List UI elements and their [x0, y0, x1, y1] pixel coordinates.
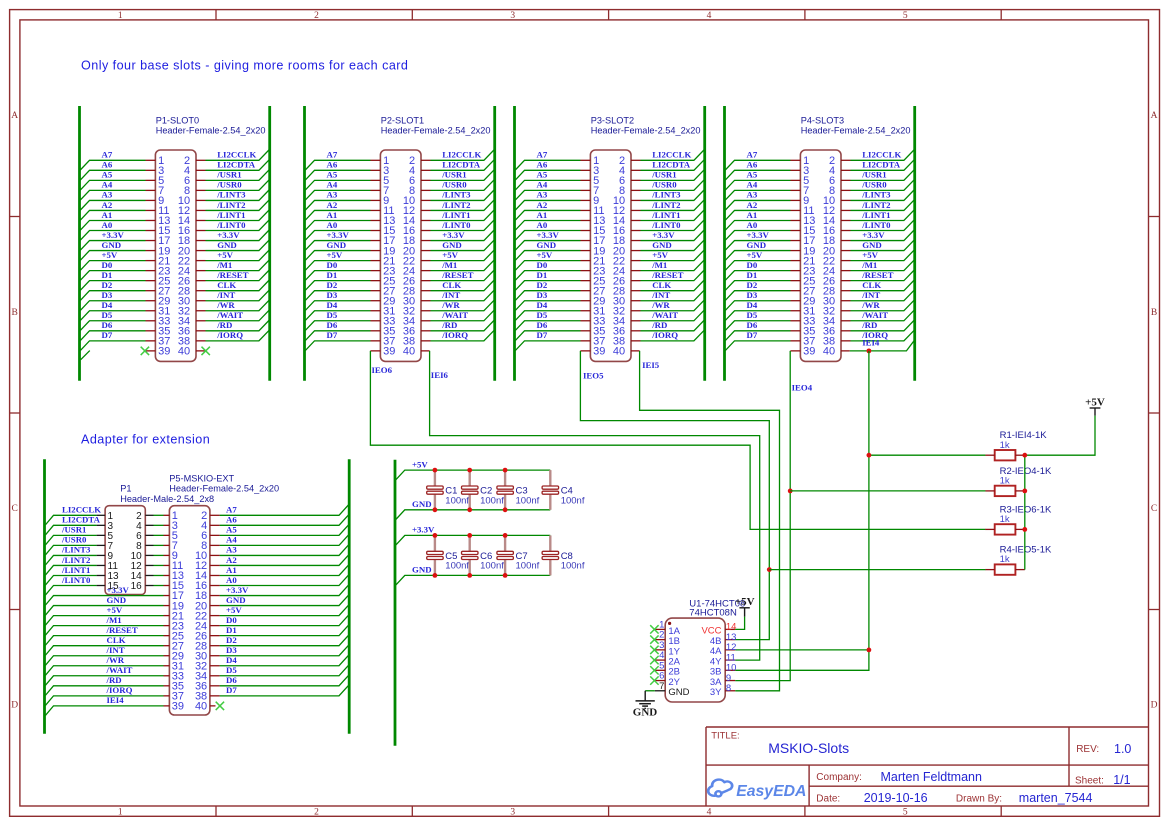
- adapter wire right row 8 net A0: [220, 575, 349, 585]
- P3-SLOT2 wire left row 18 net D6: [515, 331, 580, 341]
- P2-SLOT1 wire right row 16 net /WR: [431, 300, 494, 310]
- adapter wire right row 15 net D3: [220, 645, 349, 655]
- svg-text:D6: D6: [102, 320, 113, 330]
- P2-SLOT1 wire left row 4 net A4: [305, 190, 370, 200]
- svg-text:Date:: Date:: [816, 793, 840, 804]
- P5 pin 28 stub: [210, 645, 220, 647]
- P1 pin 7 stub right: [145, 544, 153, 546]
- svg-text:D1: D1: [327, 270, 338, 280]
- P4-SLOT3 pin 10 stub: [841, 199, 851, 201]
- P1-SLOT0 wire right row 6 net /LINT2: [206, 200, 269, 210]
- P1-SLOT0 wire left row 14 net D2: [80, 291, 145, 301]
- R1 left lead: [985, 454, 995, 456]
- svg-text:D3: D3: [537, 290, 548, 300]
- svg-text:D5: D5: [226, 665, 237, 675]
- P1-SLOT0 wire left row 17 net D5: [80, 321, 145, 331]
- svg-text:/M1: /M1: [441, 260, 457, 270]
- adapter wire left row 5 net /LINT3: [45, 555, 96, 565]
- U1 pin 2 stub: [655, 639, 665, 641]
- adapter wire right row 19 net D7: [220, 686, 349, 696]
- svg-text:/LINT3: /LINT3: [61, 545, 91, 555]
- junction C5 top: [433, 533, 438, 538]
- P3-SLOT2 pin 25 stub: [581, 280, 591, 282]
- P5 pin 37 stub: [164, 695, 170, 697]
- P1-SLOT0 wire right row 16 net /WR: [206, 300, 269, 310]
- svg-text:D5: D5: [747, 310, 758, 320]
- svg-text:LI2CDTA: LI2CDTA: [217, 160, 256, 170]
- P5 pin 25 stub: [164, 635, 170, 637]
- P2-SLOT1 wire right row 12 net /M1: [431, 260, 494, 270]
- svg-text:/USR1: /USR1: [441, 170, 466, 180]
- wire P1 to P5 row 8: [154, 585, 164, 587]
- P1-SLOT0 wire right row 3 net /USR1: [206, 170, 269, 180]
- wire U1 VCC to +5V flag: [735, 617, 744, 630]
- adapter wire left row 15 net /INT: [45, 656, 163, 666]
- U1 pin 3 stub: [655, 649, 665, 651]
- P2-SLOT1 pin 23 stub: [371, 270, 381, 272]
- adapter wire left row 7 net /LINT1: [45, 575, 96, 585]
- P4-SLOT3 pin 22 stub: [841, 260, 851, 262]
- svg-text:100nf: 100nf: [480, 495, 504, 506]
- wire P1 to P5 row 3: [154, 534, 164, 536]
- R2 left lead: [985, 490, 995, 492]
- P3-SLOT2 wire right row 12 net /M1: [641, 260, 704, 270]
- P1 pin 15 stub: [97, 585, 106, 587]
- connector P2-SLOT1 rectangle: [380, 150, 421, 361]
- P1-SLOT0 pin 7 stub: [146, 189, 156, 191]
- resistor R4: [995, 564, 1016, 574]
- junction R1 rail: [1022, 453, 1027, 458]
- P1-SLOT0 pin 33 stub: [146, 320, 156, 322]
- svg-text:1k: 1k: [1000, 440, 1010, 451]
- P1-SLOT0 pin 3 stub: [146, 169, 156, 171]
- P2-SLOT1 wire left row 14 net D2: [305, 291, 370, 301]
- svg-text:A0: A0: [102, 220, 113, 230]
- svg-text:/LINT0: /LINT0: [216, 220, 246, 230]
- P2-SLOT1 wire left row 1 net A7: [305, 160, 370, 170]
- P3-SLOT2 pin 36 stub: [631, 330, 641, 332]
- U1 pin 4 stub: [655, 659, 665, 661]
- IC U1 74HCT08N rectangle: [665, 618, 725, 702]
- svg-text:D0: D0: [102, 260, 113, 270]
- P4-SLOT3 wire left row 19 net D7: [725, 341, 790, 351]
- svg-text:/USR1: /USR1: [651, 170, 676, 180]
- P3-SLOT2 wire right row 2 net LI2CDTA: [641, 160, 704, 170]
- P1-SLOT0 pin 23 stub: [146, 270, 156, 272]
- P3-SLOT2 wire left row 9 net +3.3V: [515, 241, 580, 251]
- svg-text:+3.3V: +3.3V: [537, 230, 560, 240]
- P2-SLOT1 pin 16 stub: [421, 230, 431, 232]
- svg-text:A2: A2: [537, 200, 548, 210]
- P3-SLOT2 wire left row 12 net D0: [515, 271, 580, 281]
- adapter wire right row 14 net D2: [220, 635, 349, 645]
- P1-SLOT0 wire right row 8 net /LINT0: [206, 220, 269, 230]
- P2-SLOT1 wire left row 13 net D1: [305, 281, 370, 291]
- svg-text:4: 4: [707, 808, 712, 818]
- svg-text:D3: D3: [747, 290, 758, 300]
- power flag +5V (right): [1094, 408, 1096, 416]
- P2-SLOT1 wire right row 13 net /RESET: [431, 270, 494, 280]
- P1-SLOT0 wire left row 16 net D4: [80, 311, 145, 321]
- P2-SLOT1 wire left row 16 net D4: [305, 311, 370, 321]
- P4-SLOT3 wire right row 18 net /RD: [851, 321, 914, 331]
- P1-SLOT0 wire left row 9 net +3.3V: [80, 241, 145, 251]
- P3-SLOT2 pin 1 stub: [581, 159, 591, 161]
- P4-SLOT3 wire left row 17 net D5: [725, 321, 790, 331]
- P3-SLOT2 pin 27 stub: [581, 290, 591, 292]
- P3-SLOT2 pin 31 stub: [581, 310, 591, 312]
- svg-text:A2: A2: [327, 200, 338, 210]
- svg-text:D1: D1: [537, 270, 548, 280]
- svg-text:LI2CCLK: LI2CCLK: [862, 150, 901, 160]
- R3 left lead: [985, 528, 995, 530]
- svg-text:4: 4: [707, 11, 712, 21]
- P1-SLOT0 pin 36 stub: [196, 330, 206, 332]
- svg-text:/USR0: /USR0: [61, 535, 87, 545]
- P5 pin 12 stub: [210, 564, 220, 566]
- P5 pin 6 stub: [210, 534, 220, 536]
- P5 pin 23 stub: [164, 625, 170, 627]
- capacitor C3: [504, 470, 506, 486]
- P2-SLOT1 pin 39 stub: [370, 350, 380, 352]
- svg-text:A4: A4: [226, 535, 237, 545]
- svg-text:100nf: 100nf: [516, 561, 540, 572]
- P5 pin 40 no-connect X: [216, 702, 224, 710]
- svg-text:2: 2: [314, 808, 319, 818]
- svg-text:MSKIO-Slots: MSKIO-Slots: [768, 740, 849, 756]
- svg-text:39: 39: [158, 346, 170, 358]
- P4-SLOT3 pin 9 stub: [791, 199, 801, 201]
- P2-SLOT1 pin 20 stub: [421, 250, 431, 252]
- P2-SLOT1 wire right row 7 net /LINT1: [431, 210, 494, 220]
- P2-SLOT1 pin 30 stub: [421, 300, 431, 302]
- P4-SLOT3 wire left row 3 net A5: [725, 180, 790, 190]
- P3-SLOT2 wire left row 10 net GND: [515, 251, 580, 261]
- svg-text:+3.3V: +3.3V: [217, 230, 240, 240]
- P3-SLOT2 pin 21 stub: [581, 260, 591, 262]
- P2-SLOT1 pin 31 stub: [371, 310, 381, 312]
- P5 pin 22 stub: [210, 615, 220, 617]
- P5 pin 8 stub: [210, 544, 220, 546]
- P2-SLOT1 wire left row 2 net A6: [305, 170, 370, 180]
- P4-SLOT3 pin 4 stub: [841, 169, 851, 171]
- svg-text:CLK: CLK: [652, 280, 671, 290]
- P1-SLOT0 wire right row 14 net CLK: [206, 280, 269, 290]
- svg-text:39: 39: [803, 346, 815, 358]
- U1 pin 6 no-connect X: [650, 676, 658, 684]
- P5 pin 36 stub: [210, 685, 220, 687]
- P5 pin 30 stub: [210, 655, 220, 657]
- svg-text:/LINT1: /LINT1: [651, 210, 680, 220]
- junction C1 bottom: [433, 507, 438, 512]
- P4-SLOT3 wire right row 13 net /RESET: [851, 270, 914, 280]
- svg-text:D2: D2: [747, 280, 758, 290]
- P4-SLOT3 wire left row 7 net A1: [725, 220, 790, 230]
- P1-SLOT0 pin 25 stub: [146, 280, 156, 282]
- svg-text:LI2CDTA: LI2CDTA: [62, 515, 101, 525]
- junction C1 top: [433, 468, 438, 473]
- svg-text:8: 8: [726, 683, 731, 694]
- P2-SLOT1 wire right row 19 net /IORQ: [431, 331, 494, 341]
- P3-SLOT2 pin 22 stub: [631, 260, 641, 262]
- adapter wire right row 11 net +5V: [220, 605, 349, 615]
- P4-SLOT3 pin 35 stub: [791, 330, 801, 332]
- svg-text:Header-Male-2.54_2x8: Header-Male-2.54_2x8: [120, 494, 214, 504]
- capacitor bank rail GND: [396, 575, 551, 585]
- P3-SLOT2 wire right row 13 net /RESET: [641, 270, 704, 280]
- P2-SLOT1 wire left row 6 net A2: [305, 210, 370, 220]
- P3-SLOT2 wire right row 18 net /RD: [641, 321, 704, 331]
- P5 pin 35 stub: [164, 685, 170, 687]
- svg-text:Marten Feldtmann: Marten Feldtmann: [881, 770, 982, 784]
- wire IEI5 (P3 pin40 to U1 pin8): [640, 351, 780, 691]
- P2-SLOT1 wire right row 2 net LI2CDTA: [431, 160, 494, 170]
- P1-SLOT0 pin 40 no-connect X: [202, 347, 210, 355]
- capacitor bank rail +3.3V: [396, 535, 551, 545]
- P1-SLOT0 pin 21 stub: [146, 260, 156, 262]
- svg-text:D6: D6: [537, 320, 548, 330]
- svg-text:Header-Female-2.54_2x20: Header-Female-2.54_2x20: [591, 126, 701, 136]
- P2-SLOT1 pin 37 stub: [371, 340, 381, 342]
- P3-SLOT2 pin 32 stub: [631, 310, 641, 312]
- adapter right bus wire: [348, 459, 351, 734]
- svg-text:A7: A7: [537, 150, 548, 160]
- svg-text:/RD: /RD: [216, 320, 232, 330]
- wire IEO6 (P2 pin39 to R3): [370, 351, 985, 530]
- svg-text:/RD: /RD: [861, 320, 877, 330]
- P2-SLOT1 wire left row 7 net A1: [305, 220, 370, 230]
- P1-SLOT0 pin 18 stub: [196, 240, 206, 242]
- P2-SLOT1 pin 2 stub: [421, 159, 431, 161]
- junction C7 bottom: [503, 573, 508, 578]
- P4-SLOT3 wire right row 16 net /WR: [851, 300, 914, 310]
- svg-text:3: 3: [510, 11, 515, 21]
- adapter wire right row 4 net A4: [220, 535, 349, 545]
- P1-SLOT0 pin 19 stub: [146, 250, 156, 252]
- adapter wire right row 13 net D1: [220, 625, 349, 635]
- P2-SLOT1 wire right row 3 net /USR1: [431, 170, 494, 180]
- P2-SLOT1 pin 25 stub: [371, 280, 381, 282]
- P2-SLOT1 wire right row 11 net +5V: [431, 250, 494, 260]
- svg-text:D4: D4: [747, 300, 758, 310]
- P2-SLOT1 pin 17 stub: [371, 240, 381, 242]
- capacitor C7: [504, 535, 506, 551]
- svg-text:/INT: /INT: [106, 645, 125, 655]
- svg-text:100nf: 100nf: [561, 495, 585, 506]
- wire IEI6 (P2 pin40 to U1 pin11): [430, 351, 760, 660]
- P2-SLOT1 pin 6 stub: [421, 179, 431, 181]
- P5 pin 18 stub: [210, 595, 220, 597]
- svg-text:D6: D6: [747, 320, 758, 330]
- svg-text:IEO6: IEO6: [372, 365, 393, 375]
- svg-text:/WAIT: /WAIT: [441, 310, 468, 320]
- P3-SLOT2 wire right row 4 net /USR0: [641, 180, 704, 190]
- P4-SLOT3 wire right row 14 net CLK: [851, 280, 914, 290]
- P1-SLOT0 pin 31 stub: [146, 310, 156, 312]
- P1-SLOT0 pin 32 stub: [196, 310, 206, 312]
- svg-text:100nf: 100nf: [561, 561, 585, 572]
- P3-SLOT2 pin 2 stub: [631, 159, 641, 161]
- svg-text:/LINT2: /LINT2: [61, 555, 91, 565]
- P3-SLOT2 wire right row 1 net LI2CCLK: [641, 150, 704, 160]
- svg-text:+5V: +5V: [412, 459, 428, 469]
- P2-SLOT1 wire left row 15 net D3: [305, 301, 370, 311]
- P1-SLOT0 wire left row 4 net A4: [80, 190, 145, 200]
- svg-text:/LINT0: /LINT0: [861, 220, 891, 230]
- P4-SLOT3 pin 14 stub: [841, 219, 851, 221]
- P4-SLOT3 wire left row 4 net A4: [725, 190, 790, 200]
- P3-SLOT2 wire left row 7 net A1: [515, 220, 580, 230]
- P2-SLOT1 wire right row 18 net /RD: [431, 321, 494, 331]
- P3-SLOT2 wire right row 11 net +5V: [641, 250, 704, 260]
- svg-text:/IORQ: /IORQ: [651, 330, 678, 340]
- svg-text:40: 40: [195, 701, 207, 713]
- svg-text:/RESET: /RESET: [861, 270, 893, 280]
- svg-text:100nf: 100nf: [516, 495, 540, 506]
- svg-text:A6: A6: [226, 515, 237, 525]
- P4-SLOT3 wire left row 11 net +5V: [725, 261, 790, 271]
- P5 pin 4 stub: [210, 524, 220, 526]
- svg-text:P1: P1: [120, 484, 131, 494]
- svg-text:D0: D0: [226, 615, 237, 625]
- svg-text:1k: 1k: [1000, 514, 1010, 525]
- P1-SLOT0 pin 39 stub (NC): [145, 350, 156, 352]
- R2 right lead: [1015, 490, 1024, 492]
- adapter wire right row 9 net +3.3V: [220, 585, 349, 595]
- junction C2 bottom: [467, 507, 472, 512]
- svg-text:1: 1: [118, 11, 123, 21]
- P1 pin 15 stub right: [145, 585, 153, 587]
- P2-SLOT1 wire left row 8 net A0: [305, 231, 370, 241]
- P1-SLOT0 pin 13 stub: [146, 219, 156, 221]
- svg-text:D4: D4: [537, 300, 548, 310]
- P5 pin 3 stub: [164, 524, 170, 526]
- P5 pin 5 stub: [164, 534, 170, 536]
- svg-text:Drawn By:: Drawn By:: [956, 793, 1002, 804]
- P4-SLOT3 wire left row 12 net D0: [725, 271, 790, 281]
- P3-SLOT2 wire right row 14 net CLK: [641, 280, 704, 290]
- P2-SLOT1 wire left row 9 net +3.3V: [305, 241, 370, 251]
- svg-text:D7: D7: [102, 330, 113, 340]
- P1 pin 5 stub: [97, 534, 106, 536]
- P5 pin 34 stub: [210, 675, 220, 677]
- svg-text:/USR1: /USR1: [861, 170, 886, 180]
- svg-text:A4: A4: [327, 180, 338, 190]
- P2-SLOT1 wire right row 5 net /LINT3: [431, 190, 494, 200]
- svg-text:40: 40: [403, 346, 415, 358]
- P5 pin 33 stub: [164, 675, 170, 677]
- svg-text:D4: D4: [327, 300, 338, 310]
- P4-SLOT3 pin 23 stub: [791, 270, 801, 272]
- svg-text:1: 1: [118, 808, 123, 818]
- junction R1 left / IEI4: [867, 453, 872, 458]
- P5 pin 17 stub: [164, 595, 170, 597]
- P2-SLOT1 wire right row 10 net GND: [431, 240, 494, 250]
- svg-text:A7: A7: [327, 150, 338, 160]
- P3-SLOT2 wire left row 15 net D3: [515, 301, 580, 311]
- adapter wire left row 13 net /RESET: [45, 636, 163, 646]
- P1-SLOT0 pin 2 stub: [196, 159, 206, 161]
- svg-text:B: B: [12, 308, 18, 318]
- svg-text:D7: D7: [747, 330, 758, 340]
- svg-text:GND: GND: [412, 499, 432, 509]
- svg-text:/LINT1: /LINT1: [61, 565, 90, 575]
- P4-SLOT3 pin 30 stub: [841, 300, 851, 302]
- svg-text:/RD: /RD: [106, 675, 122, 685]
- P4-SLOT3 wire left row 5 net A3: [725, 200, 790, 210]
- P2-SLOT1 pin 34 stub: [421, 320, 431, 322]
- P4-SLOT3 wire right row 5 net /LINT3: [851, 190, 914, 200]
- P2-SLOT1 pin 26 stub: [421, 280, 431, 282]
- P3-SLOT2 pin 35 stub: [581, 330, 591, 332]
- P3-SLOT2 wire right row 16 net /WR: [641, 300, 704, 310]
- P5 pin 40 stub (NC): [210, 705, 216, 707]
- svg-text:D5: D5: [327, 310, 338, 320]
- P1 pin 13 stub: [97, 574, 106, 576]
- svg-text:/LINT3: /LINT3: [216, 190, 246, 200]
- svg-text:D0: D0: [537, 260, 548, 270]
- connector P1-SLOT0 rectangle: [155, 150, 196, 361]
- P1-SLOT0 pin 14 stub: [196, 219, 206, 221]
- P1-SLOT0 pin 34 stub: [196, 320, 206, 322]
- P4-SLOT3 wire right row 17 net /WAIT: [851, 310, 914, 320]
- svg-text:D0: D0: [327, 260, 338, 270]
- svg-text:A1: A1: [747, 210, 758, 220]
- svg-text:+3.3V: +3.3V: [226, 585, 249, 595]
- P4-SLOT3 wire left row 18 net D6: [725, 331, 790, 341]
- wire P1 to P5 row 1: [154, 514, 164, 516]
- svg-text:+3.3V: +3.3V: [327, 230, 350, 240]
- svg-text:GND: GND: [652, 240, 672, 250]
- P5 pin 14 stub: [210, 574, 220, 576]
- P1-SLOT0 wire left row 8 net A0: [80, 231, 145, 241]
- P1-SLOT0 wire left row 2 net A6: [80, 170, 145, 180]
- svg-text:A0: A0: [226, 575, 237, 585]
- P1 pin 5 stub right: [145, 534, 153, 536]
- wire resistor right rail to +5V: [1025, 416, 1095, 570]
- P4-SLOT3 wire right row 7 net /LINT1: [851, 210, 914, 220]
- wire R1 left lead to IEI4: [869, 454, 986, 456]
- U1 pin 4 no-connect X: [650, 656, 658, 664]
- P3-SLOT2 pin 6 stub: [631, 179, 641, 181]
- svg-text:/RESET: /RESET: [651, 270, 683, 280]
- P1-SLOT0 left bus wire: [78, 106, 81, 381]
- svg-text:/M1: /M1: [216, 260, 232, 270]
- P1-SLOT0 pin 15 stub: [146, 230, 156, 232]
- adapter wire left row 12 net /M1: [45, 626, 163, 636]
- P4-SLOT3 pin 17 stub: [791, 240, 801, 242]
- svg-text:/USR0: /USR0: [441, 180, 467, 190]
- P1-SLOT0 wire left row 18 net D6: [80, 331, 145, 341]
- svg-text:A2: A2: [226, 555, 237, 565]
- wire IEO4 (P4 pin39 to U1 pin9): [735, 351, 790, 681]
- svg-text:REV:: REV:: [1076, 744, 1099, 755]
- P4-SLOT3 wire left row 1 net A7: [725, 160, 790, 170]
- P4-SLOT3 pin 31 stub: [791, 310, 801, 312]
- adapter wire left row 17 net /WAIT: [45, 676, 163, 686]
- P3-SLOT2 wire right row 5 net /LINT3: [641, 190, 704, 200]
- capacitor C1: [434, 470, 436, 486]
- svg-text:P4-SLOT3: P4-SLOT3: [801, 116, 844, 126]
- svg-text:LI2CCLK: LI2CCLK: [217, 150, 256, 160]
- resistor R2: [995, 486, 1016, 496]
- adapter wire right row 1 net A7: [220, 505, 349, 515]
- svg-text:P2-SLOT1: P2-SLOT1: [381, 116, 424, 126]
- svg-text:LI2CCLK: LI2CCLK: [62, 505, 101, 515]
- P5 pin 11 stub: [164, 564, 170, 566]
- capacitor C4: [549, 470, 551, 486]
- P2-SLOT1 pin 10 stub: [421, 199, 431, 201]
